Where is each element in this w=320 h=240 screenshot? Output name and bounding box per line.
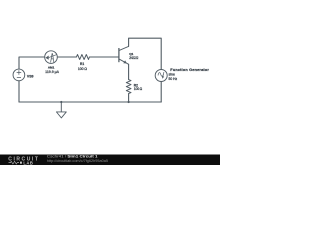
wire AM1 to R1 xyxy=(57,56,76,58)
svg-text:http://circuitlab.com/c/7fg62h: http://circuitlab.com/c/7fg62h95a0a5 xyxy=(47,159,108,163)
wire function generator bottom xyxy=(160,82,162,103)
wire bottom rail xyxy=(19,101,161,103)
svg-text:100 Ω: 100 Ω xyxy=(134,87,143,91)
node junction R2-bottom rail xyxy=(128,101,130,103)
wire R2 to bottom rail xyxy=(128,94,130,103)
svg-text:119.9 µA: 119.9 µA xyxy=(45,70,59,74)
svg-text:R1: R1 xyxy=(80,62,84,66)
svg-text:VS9: VS9 xyxy=(27,75,34,79)
voltage source VS9 xyxy=(13,69,34,81)
svg-text:Cschr41 / Sim1 Circuit 1: Cschr41 / Sim1 Circuit 1 xyxy=(47,155,98,159)
ammeter AM1 xyxy=(45,51,60,74)
svg-text:LAB: LAB xyxy=(23,160,33,165)
ground xyxy=(56,101,66,118)
transistor Q1 2N2222 xyxy=(119,46,139,64)
wire Q1 collector to function generator top xyxy=(129,38,162,69)
resistor R2 100 Ohm xyxy=(126,80,142,94)
svg-text:50 Hz: 50 Hz xyxy=(169,77,178,81)
svg-text:sine: sine xyxy=(169,73,175,77)
wire VS9 top to AM1 xyxy=(19,57,45,69)
wire R1 to Q1 base xyxy=(89,56,118,58)
CircuitLab logo xyxy=(8,157,39,166)
footer bar xyxy=(0,155,220,166)
function generator source xyxy=(155,68,209,81)
svg-text:Function Generator: Function Generator xyxy=(170,68,209,72)
resistor R1 100 Ohm xyxy=(76,55,89,71)
svg-text:100 Ω: 100 Ω xyxy=(78,67,88,71)
svg-text:2N2222: 2N2222 xyxy=(129,56,138,60)
wire VS9 bottom to rail xyxy=(18,81,20,102)
wire Q1 emitter to R2 xyxy=(128,64,130,79)
